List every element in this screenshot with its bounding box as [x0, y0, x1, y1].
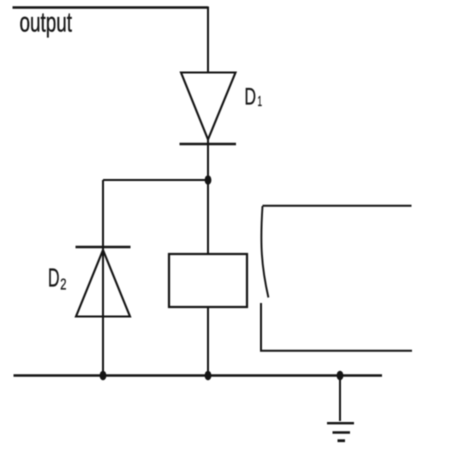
svg-text:D: D: [48, 263, 60, 293]
junction dot center rail: [205, 371, 212, 381]
node A junction dot: [205, 175, 212, 185]
diode D2 cathode bar: [76, 246, 131, 248]
relay coil box: [169, 254, 247, 307]
wire top vertical to D1: [207, 7, 209, 73]
wire node A horizontal: [103, 179, 208, 181]
svg-text:1: 1: [258, 94, 263, 110]
wire switch top: [263, 205, 412, 207]
junction dot left rail: [100, 371, 107, 381]
wire ground stem: [339, 376, 341, 422]
ground rail: [14, 374, 383, 376]
label D2: [48, 263, 66, 294]
switch blade: [261, 206, 268, 298]
wire through D2 to rail: [102, 248, 104, 376]
svg-text:output: output: [20, 7, 73, 38]
wire D1 to node A: [207, 140, 209, 181]
junction dot ground rail: [337, 371, 344, 381]
ground: [327, 423, 354, 441]
label D1: [245, 84, 263, 111]
diode D1: [181, 73, 236, 140]
wire box to rail: [207, 307, 209, 376]
wire output top: [13, 6, 209, 8]
wire node A to box: [207, 180, 209, 254]
diode D2: [76, 250, 130, 317]
wire left vertical to D2: [102, 180, 104, 247]
wire switch bottom: [261, 303, 412, 351]
svg-text:D: D: [245, 84, 257, 111]
svg-text:2: 2: [60, 277, 66, 294]
diode D1 cathode bar: [180, 143, 237, 145]
